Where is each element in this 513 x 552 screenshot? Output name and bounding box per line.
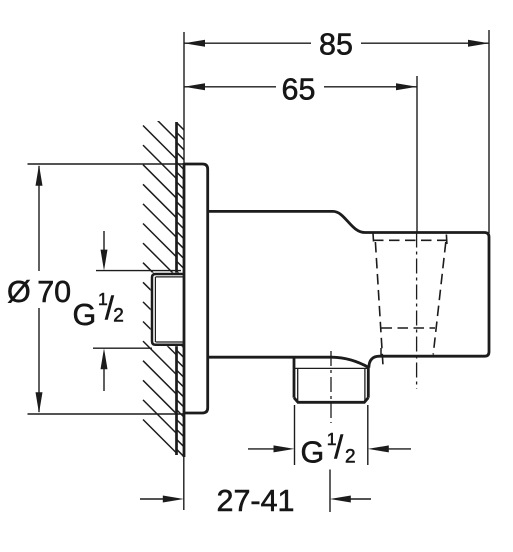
svg-text:85: 85 xyxy=(319,28,353,62)
wall surface line xyxy=(175,122,178,455)
dimension G1/2 outlet xyxy=(248,405,411,469)
svg-text:Ø: Ø xyxy=(7,275,31,309)
dimension G1/2 inlet xyxy=(73,231,182,391)
G1/2 inlet boss xyxy=(151,273,184,347)
holder cone hidden lines xyxy=(373,233,450,366)
plate back edge (wall mounting face) xyxy=(183,163,186,457)
svg-text:65: 65 xyxy=(282,72,316,106)
svg-text:/: / xyxy=(334,429,343,465)
dimension 27-41 xyxy=(140,457,371,518)
wall hatching xyxy=(143,106,177,453)
svg-text:2: 2 xyxy=(113,306,124,327)
bracket step tick xyxy=(380,348,382,356)
svg-text:70: 70 xyxy=(37,275,71,309)
svg-text:27-41: 27-41 xyxy=(217,484,295,518)
holder cone centerline xyxy=(416,233,418,390)
body top edge with S-curve and right side xyxy=(208,211,489,367)
wall band hatching xyxy=(177,123,185,457)
escutcheon plate xyxy=(184,164,208,413)
dimension D70 xyxy=(7,164,184,414)
body bottom edge xyxy=(208,357,369,367)
svg-text:2: 2 xyxy=(345,446,356,467)
outlet centerline xyxy=(330,351,332,423)
svg-text:G: G xyxy=(73,298,97,332)
G1/2 outlet stub xyxy=(294,357,368,402)
dimension 65 xyxy=(184,72,417,233)
dimension 85 xyxy=(184,28,489,233)
svg-text:G: G xyxy=(301,435,325,469)
